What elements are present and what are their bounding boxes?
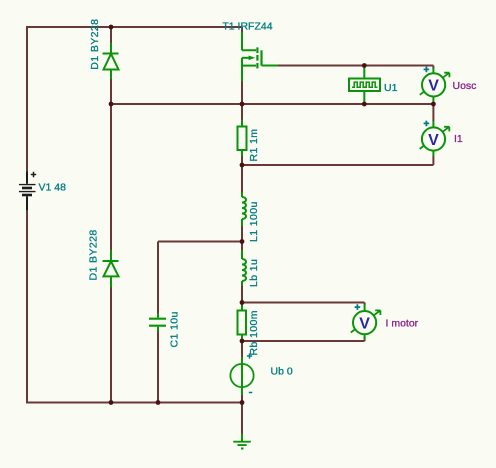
transistor T1: channel tick top xyxy=(256,47,258,53)
svg-text:L1 100u: L1 100u xyxy=(248,201,260,242)
wire left rail lower (V1 bottom to bottom rail) xyxy=(26,211,28,403)
svg-text:R1 1m: R1 1m xyxy=(248,129,260,162)
voltmeter Uosc: top stub xyxy=(432,68,434,74)
voltmeter Uosc: plus mark xyxy=(424,67,430,73)
junction dot middle branch / bottom rail xyxy=(240,400,245,405)
svg-text:V: V xyxy=(428,78,439,95)
junction dot Uosc bottom / rail y104 xyxy=(431,102,436,107)
transistor T1: gate lead xyxy=(262,65,279,67)
ammeter I1: bottom stub xyxy=(432,151,434,157)
ammeter I motor: bottom stub xyxy=(364,334,366,340)
junction dot top rail / diode branch xyxy=(109,25,114,30)
diode D1 top: bottom stub xyxy=(110,70,112,80)
generator U1: square wave xyxy=(352,82,377,87)
ammeter I motor: plus mark xyxy=(355,304,361,310)
junction dot diode branch / bottom rail xyxy=(109,400,114,405)
generator U1: top stub xyxy=(363,66,365,79)
voltmeter Uosc: bottom stub xyxy=(432,96,434,102)
junction dot middle branch / rail y104 xyxy=(240,102,245,107)
svg-text:V: V xyxy=(428,132,439,149)
ammeter I motor: top stub xyxy=(364,304,366,311)
resistor R1: top stub xyxy=(241,120,243,127)
ammeter I1: top stub xyxy=(432,121,434,128)
capacitor C1: bottom stub xyxy=(157,327,159,332)
ground: lead xyxy=(241,434,243,441)
svg-text:Ub 0: Ub 0 xyxy=(271,366,293,378)
ammeter I1: arrow xyxy=(420,127,450,149)
battery V1 bottom lead (black) xyxy=(26,196,28,210)
transistor T1: bulk arrow head xyxy=(249,56,256,61)
ammeter I1: circle xyxy=(422,127,445,150)
svg-text:T1 IRFZ44: T1 IRFZ44 xyxy=(222,21,272,33)
wire top rail from V1+ to T1 drain xyxy=(27,26,242,28)
diode D1 bottom: bottom stub xyxy=(110,276,112,287)
inductor L1: bottom stub xyxy=(241,219,243,226)
battery V1 plates xyxy=(19,184,36,186)
diode D1 top: triangle xyxy=(104,54,119,70)
transistor T1: source stub xyxy=(242,65,256,67)
source Ub: through lead xyxy=(241,357,243,395)
svg-text:D1 BY228: D1 BY228 xyxy=(88,229,100,280)
resistor Rb: bottom stub xyxy=(241,335,243,342)
transistor T1 IRFZ44 MOSFET: drain lead xyxy=(242,32,256,50)
wire left rail upper (V1 top lead) xyxy=(26,26,28,172)
transistor T1: source lead vertical xyxy=(241,58,243,82)
wire I motor bottom rail y=341 xyxy=(242,337,365,341)
svg-text:C1 10u: C1 10u xyxy=(169,311,181,347)
ammeter I motor: arrow xyxy=(351,310,381,332)
svg-text:Lb 1u: Lb 1u xyxy=(248,259,260,287)
wire middle branch vertical x=242 (segmented) xyxy=(241,27,243,434)
generator U1: box xyxy=(349,79,380,92)
svg-text:U1: U1 xyxy=(384,82,398,94)
source Ub: circle xyxy=(230,364,253,387)
diode D1 top: anode stub xyxy=(110,43,112,54)
generator U1: bottom stub xyxy=(363,91,365,104)
battery V1 top lead (black) xyxy=(26,172,28,184)
capacitor C1: plates xyxy=(149,319,166,326)
ammeter I motor: circle xyxy=(353,311,376,334)
diode D1 top: cathode bar xyxy=(103,53,119,55)
source Ub: plus mark xyxy=(247,353,252,358)
inductor L1: coil xyxy=(242,197,246,219)
wire rail y=241.5 to C1 xyxy=(158,242,242,315)
wire bottom rail xyxy=(26,402,242,404)
wire rail y=302.5 to I motor xyxy=(242,303,365,306)
inductor L1: top stub xyxy=(241,192,243,197)
junction dot R1 bottom rail y165 xyxy=(240,163,245,168)
wire node rail y=104 xyxy=(111,103,433,105)
diode D1 bottom: triangle xyxy=(104,261,119,276)
source Ub: minus mark xyxy=(249,392,253,394)
voltmeter Uosc: arrow xyxy=(420,73,450,95)
svg-text:V1 48: V1 48 xyxy=(39,182,67,194)
voltmeter Uosc: circle xyxy=(422,73,445,96)
junction dot C1 / bottom rail xyxy=(156,400,161,405)
resistor R1: bottom stub xyxy=(241,150,243,156)
transistor T1: gate bar xyxy=(260,50,262,65)
diode D1 bottom: cathode bar xyxy=(103,260,119,262)
wire C1 bottom lead xyxy=(157,330,159,403)
resistor Rb: body xyxy=(238,311,247,335)
svg-text:V: V xyxy=(359,315,370,332)
resistor Rb: top stub xyxy=(241,305,243,311)
wire Uosc to I1 vertical xyxy=(432,104,434,121)
ammeter I1: plus mark xyxy=(424,121,430,127)
transistor T1: bulk arrow shaft xyxy=(242,57,249,59)
diode D1 bottom: top stub xyxy=(110,250,112,261)
svg-text:I motor: I motor xyxy=(386,318,419,330)
junction dot Lb bottom rail y302 xyxy=(240,300,245,305)
wire gate net to U1 and Uosc xyxy=(278,66,433,70)
resistor R1: body xyxy=(238,127,247,151)
junction dot diode branch / rail y104 xyxy=(109,102,114,107)
ground: bars xyxy=(233,442,251,449)
transistor T1: channel tick bottom xyxy=(256,63,258,68)
wire I1 bottom to R1 bottom rail y=165 xyxy=(242,156,433,165)
junction dot L1 bottom rail y241 xyxy=(240,239,245,244)
svg-text:D1 BY228: D1 BY228 xyxy=(89,19,101,70)
inductor Lb: bottom stub xyxy=(241,281,243,286)
svg-text:Uosc: Uosc xyxy=(453,80,477,92)
junction dot Rb bottom rail y341 xyxy=(240,339,245,344)
transistor T1: channel tick middle xyxy=(256,55,258,61)
wire diode branch vertical x=111 xyxy=(110,27,112,403)
battery V1 plus mark xyxy=(31,172,36,177)
inductor Lb: coil xyxy=(242,259,246,281)
junction dot U1 bottom / rail y104 xyxy=(362,102,367,107)
svg-text:I1: I1 xyxy=(454,133,463,145)
junction dot U1 top / gate net xyxy=(362,63,367,68)
svg-text:Rb 100m: Rb 100m xyxy=(248,310,260,355)
capacitor C1: top stub xyxy=(157,313,159,318)
inductor Lb: top stub xyxy=(241,250,243,259)
